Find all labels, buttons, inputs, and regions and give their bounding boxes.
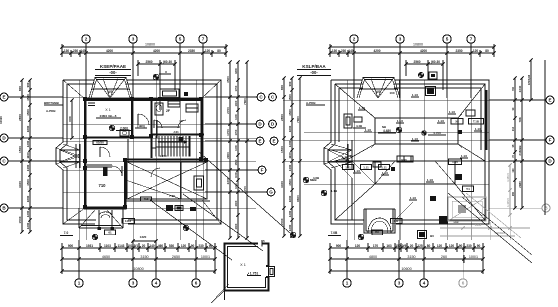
svg-text:F: F — [549, 138, 552, 143]
svg-text:7.06: 7.06 — [169, 194, 175, 198]
left plan top axis bubble 3 — [129, 35, 137, 98]
svg-text:2240: 2240 — [518, 85, 522, 92]
leader line long diagonal — [199, 152, 290, 233]
svg-text:1931: 1931 — [86, 244, 93, 248]
right plan top axis bubble 2 — [350, 35, 358, 98]
detail room right opening top — [262, 240, 269, 266]
svg-text:7800: 7800 — [296, 116, 300, 123]
left plan top axis bubble 5 — [176, 35, 184, 98]
svg-text:10800: 10800 — [145, 43, 155, 47]
svg-text:2800: 2800 — [18, 114, 22, 121]
left plan top axis bubble 2 — [82, 35, 90, 98]
svg-text:5: 5 — [446, 37, 449, 42]
svg-text:2560: 2560 — [145, 60, 152, 64]
svg-text:170: 170 — [373, 244, 379, 248]
right plan bottom axis bubble 4 — [420, 240, 428, 287]
svg-text:260: 260 — [441, 255, 447, 259]
svg-text:G: G — [269, 190, 273, 195]
svg-text:4650: 4650 — [102, 255, 110, 259]
svg-text:1.1X: 1.1X — [397, 119, 403, 123]
svg-text:4200: 4200 — [153, 49, 160, 53]
left plan right room clutter — [178, 104, 198, 128]
left plan interior wall stair bottom — [124, 158, 207, 160]
right plan slope labels — [341, 93, 482, 200]
right plan right top extra dim — [527, 58, 533, 101]
svg-text:90: 90 — [459, 244, 463, 248]
svg-text:1700: 1700 — [226, 129, 230, 136]
svg-text:1000: 1000 — [234, 172, 238, 178]
left plan staircase treads — [156, 136, 190, 157]
left plan exterior wall left — [84, 98, 86, 209]
svg-text:-00-: -00- — [310, 70, 318, 75]
svg-text:7800: 7800 — [243, 98, 247, 105]
svg-text:1300: 1300 — [234, 100, 238, 106]
svg-text:1500: 1500 — [288, 94, 292, 101]
svg-text:1: 1 — [346, 281, 349, 286]
left plan left axis bubble B — [0, 204, 63, 212]
svg-text:2300: 2300 — [234, 200, 238, 206]
right plan small fixture bottom — [418, 231, 435, 239]
svg-text:1.1X: 1.1X — [342, 155, 348, 159]
svg-text:2300: 2300 — [234, 223, 238, 229]
svg-text:100/1: 100/1 — [201, 255, 210, 259]
svg-text:W1: W1 — [107, 90, 112, 94]
right plan right axis bubble gray — [489, 204, 550, 212]
right plan chimney 4 — [344, 114, 352, 128]
right plan extra roof boxes — [354, 110, 475, 171]
left plan bottom axis bubble 4 — [152, 240, 160, 287]
svg-text:J.01: J.01 — [173, 130, 179, 134]
svg-text:X8: X8 — [455, 120, 459, 124]
left plan bottom-right drain mark — [183, 225, 189, 231]
svg-text:1500: 1500 — [26, 109, 30, 116]
svg-text:0/9: 0/9 — [402, 244, 407, 248]
svg-text:E: E — [548, 98, 551, 103]
svg-text:1400: 1400 — [26, 164, 30, 171]
svg-text:E: E — [272, 139, 275, 144]
left plan left axis bubble C — [0, 157, 63, 165]
left plan inner top-left dim — [68, 98, 74, 139]
svg-text:1500: 1500 — [26, 94, 30, 101]
svg-text:120: 120 — [449, 244, 455, 248]
svg-text:1.11: 1.11 — [345, 165, 351, 169]
left plan right axis bubble C row — [205, 93, 276, 101]
right plan left vertical dimension chains — [280, 76, 302, 237]
right plan ridge tick marks — [371, 114, 462, 148]
left plan misc interior lines — [128, 120, 180, 162]
svg-text:1200: 1200 — [26, 210, 30, 217]
left plan bottom main dimension chain — [60, 255, 216, 263]
right plan top overall dimension 10800 — [328, 43, 495, 49]
right plan porch level marker — [358, 230, 382, 240]
left plan label 05-30 — [93, 141, 107, 145]
left plan room label X1 — [96, 108, 121, 118]
svg-text:3: 3 — [399, 37, 402, 42]
right plan roof level marker — [378, 125, 402, 133]
right plan mark 7.20 — [328, 219, 402, 236]
svg-text:90: 90 — [191, 244, 195, 248]
detail room bottom-left ticks — [205, 280, 229, 300]
detail leader bottom-left — [210, 288, 226, 303]
svg-text:1800: 1800 — [26, 125, 30, 132]
left plan eave corner hips — [63, 80, 221, 224]
right plan top axis bubble 3 — [396, 35, 404, 98]
svg-text:8600: 8600 — [296, 195, 300, 202]
detail room outer wall — [225, 244, 269, 291]
right plan mid eave junction line — [335, 160, 485, 162]
right plan misc roof annotation — [353, 124, 474, 192]
right plan leader diagonal — [448, 193, 532, 263]
svg-text:216: 216 — [512, 126, 515, 131]
svg-text:1700: 1700 — [234, 85, 238, 91]
left plan window right wall — [201, 105, 203, 125]
svg-text:2: 2 — [353, 37, 356, 42]
svg-text:3: 3 — [132, 281, 135, 286]
svg-text:140: 140 — [149, 244, 155, 248]
svg-text:3500: 3500 — [226, 76, 230, 83]
svg-text:80: 80 — [485, 49, 489, 53]
svg-text:125: 125 — [417, 244, 423, 248]
right plan bottom axis bubble 1 — [343, 240, 351, 287]
leader line to detail lower — [150, 200, 232, 260]
left plan window left wall 2 — [84, 170, 86, 195]
svg-text:1.1X: 1.1X — [410, 196, 416, 200]
right plan upper roof hip diagonals — [335, 84, 485, 161]
svg-text:A-PDB: A-PDB — [46, 109, 56, 113]
svg-text:1200: 1200 — [26, 140, 30, 147]
svg-text:2700: 2700 — [226, 107, 230, 114]
svg-text:1.1X: 1.1X — [427, 178, 433, 182]
svg-text:141: 141 — [394, 219, 399, 223]
svg-text:3: 3 — [132, 37, 135, 42]
right plan bottom main dimension chain — [328, 255, 484, 263]
svg-text:80: 80 — [217, 49, 221, 53]
svg-text:1.1X: 1.1X — [359, 106, 365, 110]
left plan exterior wall top — [84, 98, 203, 101]
svg-text:4: 4 — [155, 281, 158, 286]
svg-text:10800: 10800 — [133, 267, 143, 271]
svg-text:1100: 1100 — [288, 152, 292, 159]
svg-text:216/BB: 216/BB — [518, 145, 522, 156]
left plan left axis bubble E — [0, 93, 63, 101]
svg-text:1.1X: 1.1X — [438, 119, 444, 123]
svg-text:1500: 1500 — [18, 146, 22, 153]
left plan title label — [95, 64, 131, 76]
left plan right axis bubble D row — [205, 120, 276, 128]
svg-text:1500: 1500 — [18, 216, 22, 223]
svg-text:KSLP/BAA: KSLP/BAA — [302, 64, 326, 69]
svg-text:101: 101 — [127, 244, 133, 248]
svg-text:1400: 1400 — [288, 164, 292, 171]
svg-text:B0: B0 — [430, 234, 434, 238]
svg-text:760: 760 — [512, 86, 515, 91]
left plan room 710 upper partial wall — [87, 165, 112, 176]
svg-text:1.1X: 1.1X — [382, 171, 388, 175]
right plan lower roof ridge and hips — [335, 161, 485, 220]
svg-text:1.1X: 1.1X — [475, 127, 481, 131]
left plan vertical axis grid lines — [79, 57, 203, 240]
svg-text:130: 130 — [332, 49, 338, 53]
right plan boxed label pair right — [451, 119, 484, 125]
svg-text:3150: 3150 — [407, 255, 415, 259]
svg-text:788: 788 — [518, 117, 522, 122]
right plan left small labels — [306, 101, 325, 105]
right plan top axis bubble 7 — [467, 35, 475, 98]
svg-text:900: 900 — [288, 81, 292, 86]
left plan outer eave line — [56, 80, 221, 224]
svg-text:7: 7 — [470, 37, 473, 42]
left plan top overall dimension 10800 — [60, 43, 227, 49]
svg-text:800: 800 — [280, 85, 284, 90]
svg-text:3400: 3400 — [18, 181, 22, 188]
svg-text:1100: 1100 — [26, 152, 30, 159]
svg-text:1500: 1500 — [234, 159, 238, 165]
svg-text:230: 230 — [73, 49, 79, 53]
svg-text:24M4 4B—6: 24M4 4B—6 — [100, 114, 117, 118]
svg-text:1.1B: 1.1B — [331, 189, 338, 193]
left plan label 415 — [141, 197, 152, 201]
svg-text:E: E — [258, 139, 261, 144]
svg-text:900: 900 — [26, 82, 30, 87]
right plan bottom axis bubble gray — [459, 246, 467, 287]
svg-text:7.0B: 7.0B — [331, 231, 338, 235]
gray dim lines bottom right — [440, 200, 530, 240]
svg-text:1500: 1500 — [288, 109, 292, 116]
svg-text:1.150: 1.150 — [160, 154, 167, 158]
svg-text:120: 120 — [181, 244, 187, 248]
svg-text:X 1: X 1 — [240, 263, 246, 267]
svg-text:A-PDB: A-PDB — [306, 101, 316, 105]
svg-text:1: 1 — [78, 281, 81, 286]
svg-text:3150: 3150 — [140, 255, 148, 259]
right plan upper roof ridge rectangle — [375, 118, 458, 144]
left plan inner eave line — [60, 84, 217, 220]
left plan window top wall 1 — [95, 99, 123, 101]
svg-text:1.15: 1.15 — [452, 160, 458, 164]
left plan top segment dimension chain — [60, 44, 227, 57]
left plan fixture table — [166, 205, 183, 211]
left plan left segment vertical dimension — [26, 78, 32, 233]
svg-text:10800: 10800 — [413, 43, 423, 47]
svg-text:90: 90 — [477, 244, 481, 248]
svg-text:MBB: MBB — [310, 178, 317, 182]
svg-text:10600: 10600 — [401, 267, 411, 271]
svg-text:800: 800 — [18, 86, 22, 91]
right plan right axis bubble E — [489, 96, 554, 104]
svg-text:1200: 1200 — [288, 224, 292, 231]
svg-text:1320: 1320 — [140, 235, 147, 239]
right plan left level marker 1 — [303, 176, 320, 183]
svg-text:6: 6 — [462, 281, 465, 286]
svg-text:1.1X: 1.1X — [412, 137, 418, 141]
svg-text:1.751: 1.751 — [250, 272, 259, 276]
gray overlay detail box — [448, 197, 486, 221]
svg-text:4800: 4800 — [369, 255, 377, 259]
right plan right axis bubble D — [489, 157, 554, 165]
right plan right vertical dimension chain — [512, 60, 545, 215]
detail room inner wall line — [228, 247, 266, 288]
left plan secondary top dimension — [136, 60, 176, 110]
left plan upper-mid room fixtures — [154, 101, 180, 128]
svg-text:130: 130 — [64, 49, 70, 53]
svg-text:120: 120 — [437, 244, 443, 248]
svg-text:120: 120 — [473, 49, 479, 53]
left plan room label 2F — [166, 109, 170, 113]
left plan bottom axis bubble 6 — [192, 240, 200, 287]
svg-text:140: 140 — [80, 49, 86, 53]
svg-text:230: 230 — [341, 49, 347, 53]
left plan window bottom wall — [100, 207, 123, 209]
svg-text:900: 900 — [336, 244, 342, 248]
left plan small dim 1320 — [131, 235, 157, 243]
svg-text:20: 20 — [142, 244, 146, 248]
svg-text:1500: 1500 — [68, 116, 72, 122]
left plan exterior wall right — [201, 98, 204, 158]
svg-text:1500: 1500 — [280, 146, 284, 153]
right plan label 4.700 — [422, 131, 446, 136]
svg-text:710: 710 — [99, 183, 107, 188]
svg-text:2560: 2560 — [413, 60, 420, 64]
svg-text:1200: 1200 — [288, 140, 292, 147]
svg-text:NB: NB — [382, 125, 386, 129]
svg-text:2F: 2F — [166, 109, 170, 113]
svg-text:2900: 2900 — [226, 152, 230, 159]
left plan wall columns — [83, 97, 208, 209]
right plan wall segment right — [486, 90, 488, 150]
left plan door arc 3 — [151, 168, 160, 177]
svg-text:280: 280 — [512, 191, 515, 196]
svg-text:2350: 2350 — [188, 49, 195, 53]
svg-text:230: 230 — [466, 244, 472, 248]
svg-text:1400: 1400 — [234, 114, 238, 120]
svg-text:120: 120 — [205, 49, 211, 53]
svg-text:415: 415 — [143, 197, 148, 201]
right plan left chamfer fan — [324, 140, 352, 170]
left plan lower-right terrace roof — [126, 162, 210, 201]
left plan fixture chimney right — [194, 176, 204, 190]
svg-text:7: 7 — [202, 37, 205, 42]
svg-text:20: 20 — [410, 244, 414, 248]
svg-text:T.1B: T.1B — [473, 120, 479, 124]
left plan interior wall vertical right of room 710 — [124, 158, 126, 209]
svg-text:80: 80 — [427, 244, 431, 248]
left plan left overall vertical dimension — [18, 78, 24, 233]
left plan right vertical dimension chains — [226, 60, 249, 239]
svg-text:4,150.5: 4,150.5 — [506, 173, 510, 182]
left plan interior wall vertical 2 — [151, 98, 153, 158]
right plan inner eave line — [328, 84, 485, 220]
svg-text:05/30: 05/30 — [96, 141, 104, 145]
left plan top axis bubble 7 — [199, 35, 207, 98]
svg-text:15: 15 — [261, 239, 265, 243]
right plan bottom small segment dimension — [328, 243, 484, 252]
right plan left label MBB — [310, 178, 317, 182]
svg-text:4200: 4200 — [373, 49, 380, 53]
svg-text:1800: 1800 — [26, 195, 30, 202]
leader line to detail upper — [183, 194, 263, 251]
right plan bottom axis bubble 3 — [395, 240, 403, 287]
svg-text:KSEP/PAAE: KSEP/PAAE — [100, 64, 126, 69]
left plan bottom porch bay — [79, 208, 123, 230]
svg-text:-00-: -00- — [109, 70, 117, 75]
right plan top segment dimension chain — [328, 44, 495, 57]
left plan window left wall 1 — [84, 108, 86, 128]
svg-text:1900: 1900 — [475, 223, 482, 227]
right plan top axis bubble 5 — [443, 35, 451, 98]
svg-text:1103: 1103 — [104, 244, 111, 248]
svg-text:2650: 2650 — [172, 255, 180, 259]
left plan lower room furniture — [112, 166, 196, 211]
right plan vertical axis grid lines — [347, 57, 471, 240]
svg-text:B0: B0 — [375, 231, 379, 235]
svg-text:F: F — [261, 168, 264, 173]
svg-text:(60.30: (60.30 — [163, 60, 172, 64]
right plan chimney 3 — [430, 196, 436, 201]
left plan interior wall vertical 1 — [131, 98, 133, 138]
svg-text:BRP70/BB: BRP70/BB — [44, 101, 60, 105]
svg-text:460: 460 — [158, 244, 164, 248]
left plan right axis bubble E row — [205, 137, 278, 145]
left plan door arc 1 — [138, 114, 149, 125]
gray vertical dim right — [506, 163, 512, 216]
right plan bottom porch roof — [364, 209, 395, 233]
right plan title label — [297, 64, 331, 76]
svg-text:900: 900 — [68, 244, 74, 248]
svg-text:163: 163 — [386, 244, 392, 248]
svg-text:4: 4 — [423, 281, 426, 286]
svg-text:1200: 1200 — [26, 222, 30, 229]
svg-text:4.700: 4.700 — [433, 131, 441, 135]
svg-text:1.1X: 1.1X — [365, 128, 371, 132]
right plan chimney 2 — [455, 174, 462, 180]
right plan outer eave line — [324, 80, 489, 224]
svg-text:10020: 10020 — [0, 116, 3, 124]
right plan chimney 1 — [426, 87, 436, 96]
svg-text:1,105.5: 1,105.5 — [506, 198, 510, 207]
left plan porch level mark — [92, 230, 115, 240]
svg-text:1413: 1413 — [125, 219, 132, 223]
svg-text:190: 190 — [512, 168, 515, 173]
svg-text:1.11: 1.11 — [381, 165, 387, 169]
svg-text:2: 2 — [85, 37, 88, 42]
svg-text:(1B0): (1B0) — [137, 124, 145, 128]
svg-text:3: 3 — [398, 281, 401, 286]
svg-text:1800: 1800 — [288, 125, 292, 132]
svg-text:140: 140 — [348, 49, 354, 53]
svg-text:1B: 1B — [179, 119, 183, 123]
svg-text:530: 530 — [169, 244, 175, 248]
svg-text:1/508,98: 1/508,98 — [527, 74, 531, 85]
svg-text:61: 61 — [108, 231, 112, 235]
svg-text:1500: 1500 — [280, 218, 284, 225]
left plan bottom small segment dimension — [60, 243, 216, 252]
svg-text:2800: 2800 — [280, 114, 284, 121]
svg-text:2980: 2980 — [518, 181, 522, 188]
detail room label X1 — [240, 263, 246, 267]
svg-text:E: E — [2, 95, 5, 100]
right plan left bottom level marker — [290, 232, 296, 238]
svg-text:X 1: X 1 — [105, 108, 110, 112]
svg-text:152: 152 — [395, 244, 401, 248]
svg-text:4200: 4200 — [106, 49, 113, 53]
left plan horizontal axis grid lines — [12, 97, 256, 208]
svg-text:(60.30: (60.30 — [431, 60, 440, 64]
svg-text:6: 6 — [195, 281, 198, 286]
svg-text:1500: 1500 — [26, 179, 30, 186]
svg-text:230: 230 — [198, 244, 204, 248]
left plan stair arrow — [158, 141, 187, 144]
svg-text:7.0: 7.0 — [64, 231, 69, 235]
